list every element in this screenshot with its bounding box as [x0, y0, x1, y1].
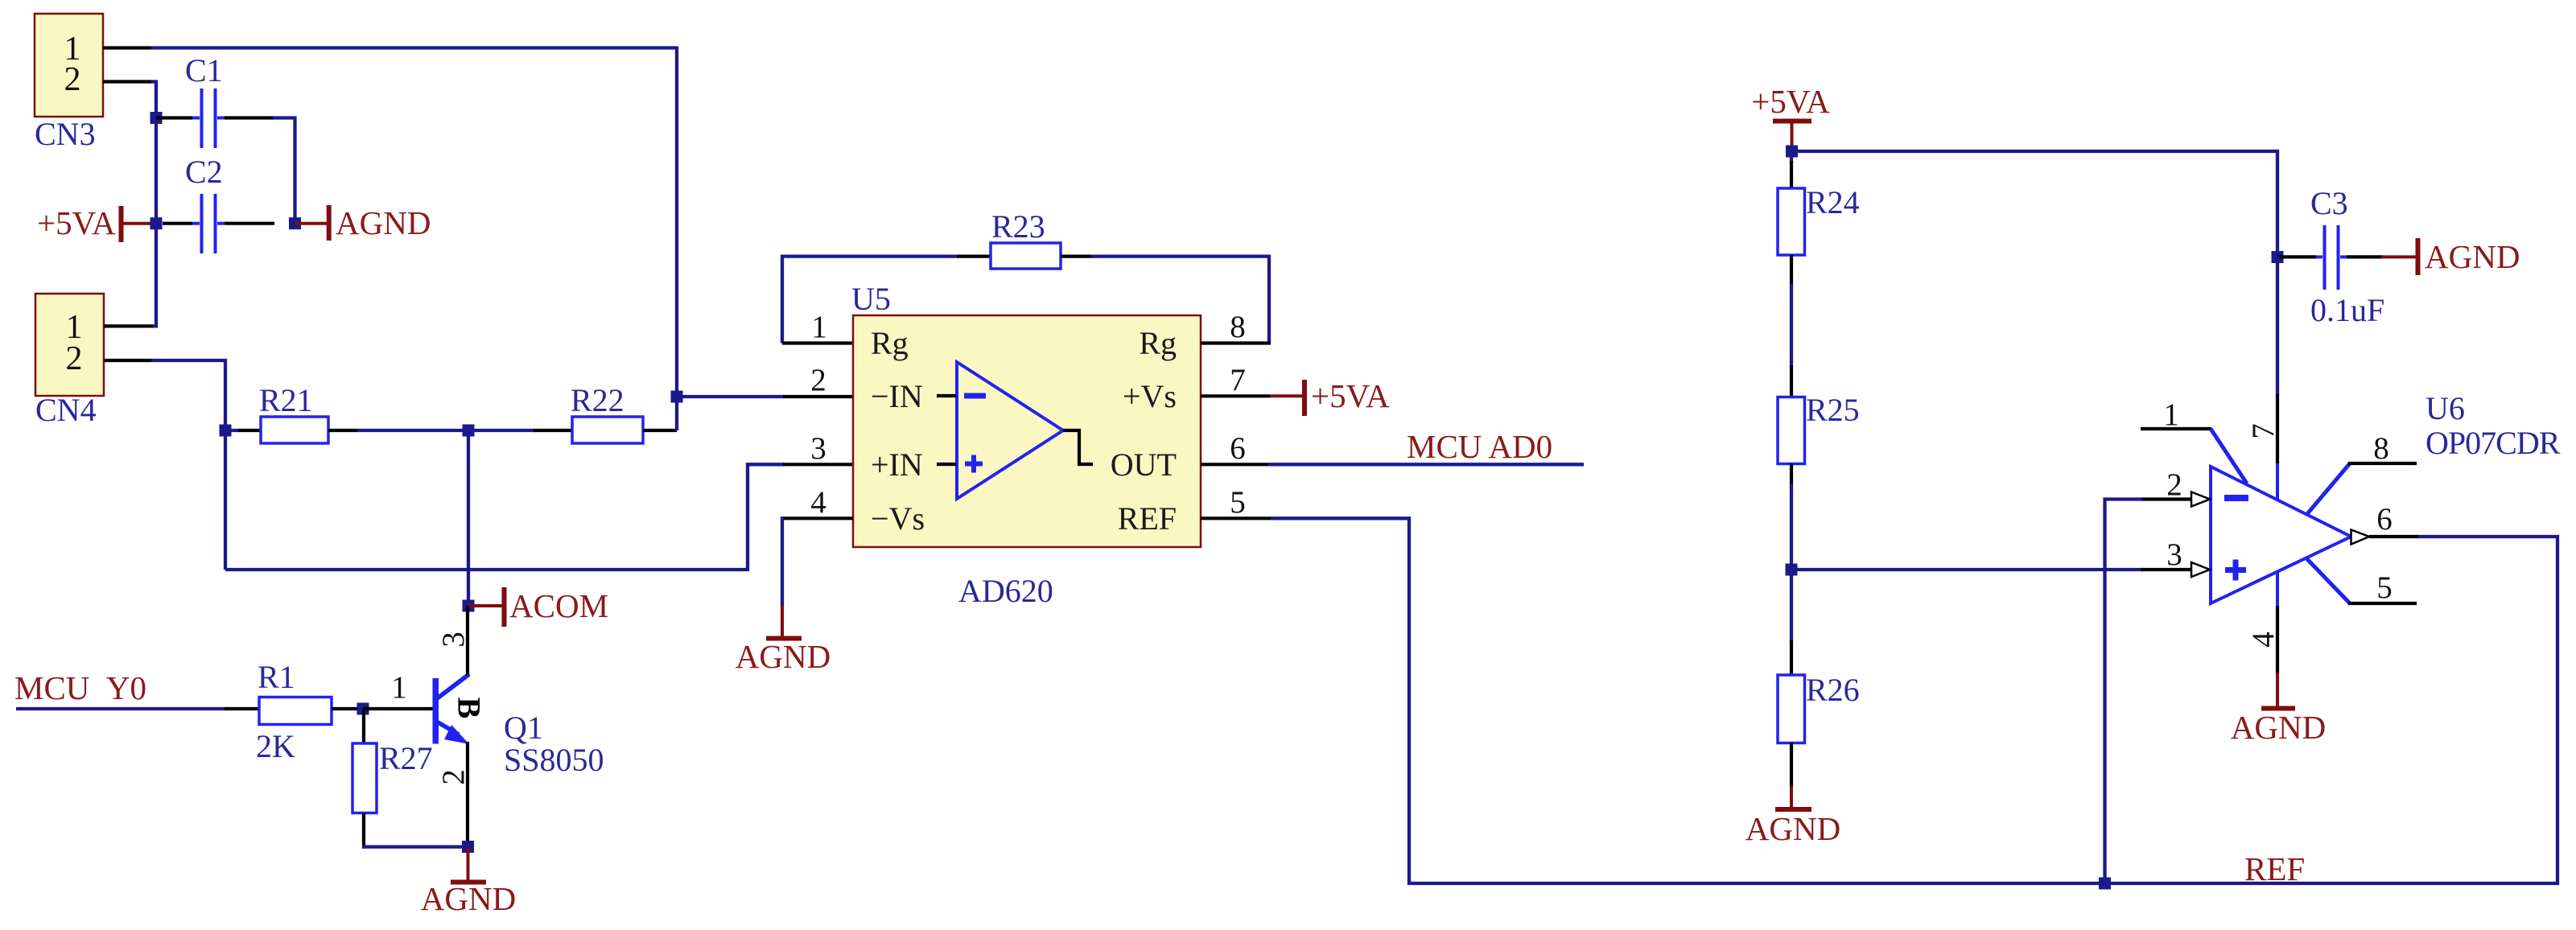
U5 inner minus — [964, 393, 986, 399]
svg-text:C3: C3 — [2310, 185, 2348, 221]
U6 pin 6 output arrow — [2351, 530, 2370, 545]
Q1 emitter lead — [466, 742, 469, 848]
CN4 pin 2 stub — [104, 359, 153, 362]
ground AGND (below U5) — [736, 605, 831, 675]
svg-text:C1: C1 — [185, 52, 223, 88]
svg-text:3: 3 — [810, 431, 826, 466]
wire R21/R22 node down to ACOM node — [467, 430, 470, 606]
svg-text:5: 5 — [2376, 570, 2393, 605]
svg-text:R24: R24 — [1806, 184, 1860, 220]
U6 pin 5 stub — [2348, 602, 2417, 605]
U5 inner stub lines — [937, 394, 956, 397]
wire R23 right down to U5 pin 8 — [1091, 257, 1269, 344]
U5 pin 8 stub — [1201, 341, 1271, 344]
CN4 pin 1 stub — [104, 324, 153, 327]
node U5 pin2 junction — [671, 391, 683, 403]
wire vertical node A to +5VA node — [155, 118, 158, 224]
svg-text:B: B — [451, 697, 488, 719]
wire U6 pin2 feedback vertical — [2105, 500, 2143, 884]
wire R24 to R25 — [1790, 255, 1793, 286]
svg-text:U5: U5 — [851, 281, 891, 317]
svg-text:AGND: AGND — [736, 638, 831, 675]
svg-text:2: 2 — [64, 61, 81, 98]
wire R27 bottom to emitter node — [362, 813, 365, 849]
svg-text:2: 2 — [436, 769, 471, 785]
U5 inner triangle — [957, 362, 1063, 499]
svg-text:CN3: CN3 — [35, 116, 96, 152]
node A (C1 junction) — [150, 112, 163, 124]
wire R26 to ground — [1790, 743, 1793, 788]
wire CN3.1 to U5 -IN net (top horizontal) — [151, 46, 677, 49]
svg-text:AGND: AGND — [421, 880, 516, 917]
node R1/R27/Q1 base junction — [357, 703, 369, 715]
wire base junction to Q1 base — [363, 707, 434, 710]
wire +5VA node down to CN4 pin1 — [153, 224, 156, 327]
wire MCU AD0 net — [1268, 463, 1584, 466]
resistor R1 — [225, 659, 363, 764]
svg-text:6: 6 — [1230, 431, 1246, 466]
svg-text:4: 4 — [810, 485, 826, 520]
node C2 right / AGND junction — [289, 217, 301, 229]
svg-text:REF: REF — [2244, 850, 2305, 887]
resistor R21 — [225, 382, 359, 443]
U5 pin 7 stub — [1201, 394, 1270, 397]
node REF bottom junction — [2099, 878, 2111, 890]
svg-text:1: 1 — [811, 310, 827, 344]
svg-text:3: 3 — [436, 632, 471, 648]
resistor R24 — [1778, 184, 1860, 255]
svg-text:+5VA: +5VA — [1751, 83, 1830, 120]
svg-text:Q1: Q1 — [504, 710, 543, 746]
U5 pin 4 stub — [782, 516, 853, 520]
U6 pin 1 wire — [2141, 427, 2211, 430]
svg-text:2: 2 — [66, 340, 83, 377]
U5 output elbow — [1063, 430, 1093, 464]
svg-text:+5VA: +5VA — [37, 204, 116, 241]
svg-text:1: 1 — [2163, 397, 2179, 432]
op-amp U5 AD620 body — [810, 281, 1246, 609]
U5 pin 2 stub — [783, 395, 853, 398]
svg-text:AD620: AD620 — [958, 573, 1053, 609]
U6 pin 5 diagonal — [2306, 558, 2350, 603]
resistor R27 — [352, 740, 433, 813]
power ACOM symbol — [468, 587, 608, 627]
capacitor C3 — [2277, 185, 2384, 328]
wire U5 pin4 down to AGND — [781, 516, 784, 607]
transistor Q1 SS8050 — [391, 606, 604, 848]
wire +5VA node into R24 — [1790, 151, 1793, 163]
U5 inner plus — [965, 462, 983, 467]
svg-text:REF: REF — [1118, 500, 1177, 537]
U6 pin 8 diagonal — [2306, 463, 2350, 515]
U5 pin 1 stub — [782, 341, 853, 344]
Q1 emitter diagonal — [435, 721, 459, 735]
U6 pin 3 stub — [2141, 568, 2191, 571]
svg-text:0.1uF: 0.1uF — [2310, 292, 2384, 328]
svg-text:4: 4 — [2246, 632, 2281, 648]
resistor R26 — [1778, 672, 1860, 743]
node +5VA/C2 junction — [150, 217, 163, 229]
U5 pin 6 stub — [1201, 463, 1270, 466]
svg-text:1: 1 — [391, 670, 407, 705]
svg-text:+IN: +IN — [871, 446, 923, 483]
Q1 base bar — [433, 678, 439, 744]
node ACOM junction — [463, 600, 475, 612]
resistor R23 — [957, 208, 1093, 269]
svg-text:AGND: AGND — [1745, 810, 1840, 847]
svg-text:MCU Y0: MCU Y0 — [14, 669, 146, 706]
node C3 junction — [2272, 251, 2284, 263]
capacitor C1 — [156, 52, 274, 148]
U6 triangle — [2211, 467, 2351, 603]
Q1 collector lead — [466, 606, 469, 675]
svg-text:R26: R26 — [1806, 672, 1860, 708]
connector CN3 — [35, 14, 103, 152]
svg-text:+5VA: +5VA — [1311, 377, 1390, 414]
U6 pin 2 input arrow — [2191, 492, 2210, 507]
resistor R25 — [1778, 392, 1860, 464]
CN3 pin 1 stub — [103, 46, 153, 49]
connector CN4 — [35, 294, 104, 428]
svg-text:R1: R1 — [258, 659, 295, 695]
node +5VA junction — [1786, 146, 1798, 158]
svg-text:−Vs: −Vs — [871, 500, 925, 537]
svg-text:7: 7 — [1230, 363, 1246, 397]
svg-text:2K: 2K — [256, 728, 295, 764]
svg-text:AGND: AGND — [2231, 709, 2326, 746]
ground AGND (below R26) — [1745, 786, 1840, 847]
wire MCU Y0 to R1 — [16, 707, 226, 710]
svg-text:CN4: CN4 — [35, 392, 97, 428]
svg-text:AGND: AGND — [336, 204, 431, 241]
svg-text:6: 6 — [2376, 502, 2393, 537]
capacitor C2 — [163, 154, 274, 253]
svg-text:Rg: Rg — [871, 325, 909, 361]
wire R25 to divider node — [1790, 464, 1793, 486]
wire divider node to U6 pin 3 — [1791, 568, 2142, 571]
wire R21 to R22 — [357, 429, 468, 432]
U6 pin 3 input arrow — [2191, 562, 2210, 577]
node R21 left junction — [220, 425, 232, 437]
node divider junction — [1786, 564, 1798, 576]
U5 pin 3 stub — [783, 463, 853, 466]
wire C3 node down to U6 pin 7 — [2276, 257, 2279, 396]
svg-text:R23: R23 — [991, 208, 1045, 245]
svg-text:8: 8 — [1230, 310, 1246, 344]
power +5VA (left) — [37, 204, 156, 242]
ground AGND (right of C3, sideways) — [2381, 238, 2520, 275]
svg-text:8: 8 — [2373, 431, 2389, 466]
svg-text:2: 2 — [810, 363, 826, 397]
svg-text:SS8050: SS8050 — [504, 742, 604, 778]
wire to U5 pin 2 — [677, 395, 785, 398]
Q1 emitter arrowhead — [444, 725, 469, 744]
ground AGND (below U6) — [2231, 673, 2326, 746]
wire divider node to R26 — [1790, 570, 1793, 642]
wire junction down to R27 — [362, 709, 365, 745]
svg-text:C2: C2 — [185, 154, 223, 190]
svg-text:3: 3 — [2166, 537, 2182, 572]
wire C1 right to AGND branch vertical — [273, 118, 295, 224]
svg-text:U6: U6 — [2426, 390, 2465, 426]
svg-text:OP07CDR: OP07CDR — [2426, 425, 2561, 461]
svg-text:MCU AD0: MCU AD0 — [1407, 428, 1552, 465]
U6 pin 1 diagonal — [2211, 429, 2247, 484]
Q1 collector diagonal — [436, 674, 469, 699]
svg-text:R22: R22 — [571, 382, 624, 418]
U6 pin 7 lead — [2276, 394, 2279, 465]
wire CN4.2 to R21 node — [151, 360, 225, 570]
U5 pin 5 stub — [1201, 516, 1272, 520]
wire REF net: down, along bottom — [1271, 518, 2557, 883]
svg-text:R25: R25 — [1806, 392, 1860, 428]
wire CN3.2 down to C1 node — [151, 82, 156, 118]
U6 inner minus — [2224, 495, 2248, 501]
node emitter/R27 junction — [462, 841, 474, 853]
svg-text:ACOM: ACOM — [509, 587, 608, 624]
wire U5 pin1 loop up to R23 — [782, 257, 958, 344]
power +5VA (at U5 pin 7) — [1270, 377, 1390, 416]
U6 inner plus — [2225, 567, 2246, 573]
svg-text:+Vs: +Vs — [1123, 378, 1177, 414]
svg-text:2: 2 — [2166, 467, 2182, 502]
node R21/R22 junction — [463, 425, 475, 437]
U6 pin 6 stub — [2369, 535, 2418, 538]
wire mid horizontal to U5 pin 3 — [225, 464, 785, 570]
CN3 pin 2 stub — [103, 80, 153, 83]
wire +5VA node to C3 branch — [1792, 151, 2278, 258]
svg-text:OUT: OUT — [1111, 446, 1177, 483]
svg-text:AGND: AGND — [2425, 238, 2520, 275]
op-amp U6 OP07CDR — [2141, 390, 2561, 674]
svg-text:R27: R27 — [379, 740, 433, 776]
ground AGND (below Q1) — [421, 847, 516, 917]
U6 pin 8 stub — [2348, 462, 2417, 465]
svg-text:Rg: Rg — [1139, 325, 1177, 361]
ground AGND (left, sideways) — [295, 204, 431, 241]
svg-text:R21: R21 — [259, 382, 313, 418]
power +5VA (top right) — [1751, 83, 1830, 153]
svg-text:−IN: −IN — [871, 378, 923, 414]
U6 pin 2 stub — [2141, 497, 2191, 500]
wire R22 up to top net / down to U5 pin2 — [675, 47, 678, 431]
svg-text:5: 5 — [1230, 485, 1246, 520]
resistor R22 — [468, 382, 677, 443]
svg-text:7: 7 — [2246, 423, 2281, 439]
U6 pin 4 lead — [2276, 570, 2279, 607]
